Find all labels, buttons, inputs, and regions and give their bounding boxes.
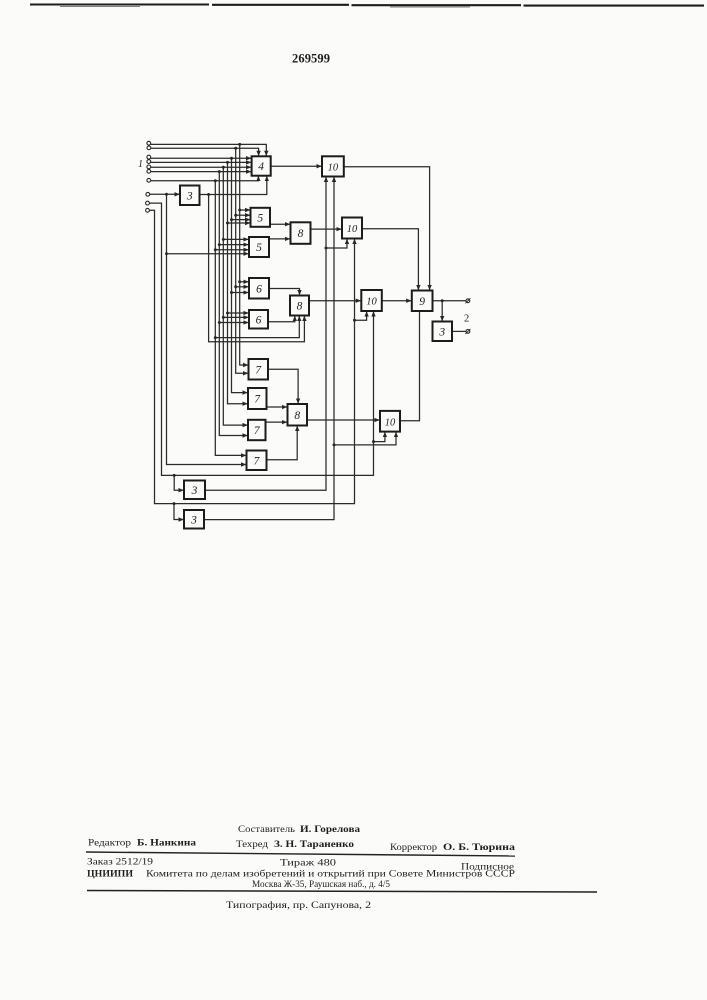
- svg-text:И. Горелова: И. Горелова: [300, 824, 360, 835]
- svg-text:5: 5: [257, 212, 263, 224]
- svg-text:3: 3: [191, 485, 198, 497]
- svg-text:ЦНИИПИ: ЦНИИПИ: [87, 869, 134, 880]
- svg-text:Москва Ж-35, Раушская наб., д.: Москва Ж-35, Раушская наб., д. 4/5: [252, 879, 390, 890]
- svg-text:3: 3: [190, 514, 197, 526]
- svg-text:О. Б. Тюрина: О. Б. Тюрина: [443, 842, 515, 853]
- svg-text:2: 2: [464, 314, 469, 325]
- svg-text:Корректор: Корректор: [390, 842, 437, 853]
- svg-text:6: 6: [256, 314, 262, 326]
- svg-text:8: 8: [294, 410, 300, 422]
- svg-text:Заказ 2512/19: Заказ 2512/19: [87, 857, 153, 868]
- svg-text:10: 10: [366, 297, 377, 308]
- svg-text:10: 10: [347, 224, 358, 235]
- svg-text:Б. Нанкина: Б. Нанкина: [137, 838, 196, 849]
- svg-text:3: 3: [186, 190, 193, 202]
- svg-text:Редактор: Редактор: [88, 838, 131, 849]
- svg-text:4: 4: [258, 161, 264, 173]
- svg-text:5: 5: [256, 242, 262, 254]
- svg-text:9: 9: [419, 296, 425, 308]
- svg-text:Комитета по делам изобретений: Комитета по делам изобретений и открытий…: [146, 869, 515, 880]
- svg-text:Тираж 480: Тираж 480: [280, 858, 336, 869]
- svg-text:8: 8: [298, 228, 304, 240]
- svg-text:1: 1: [138, 159, 143, 170]
- svg-text:З. Н. Тараненко: З. Н. Тараненко: [274, 839, 354, 850]
- svg-text:3: 3: [438, 326, 445, 338]
- svg-text:8: 8: [297, 301, 303, 313]
- svg-text:10: 10: [328, 162, 339, 173]
- svg-text:Техред: Техред: [236, 839, 268, 850]
- svg-text:269599: 269599: [292, 52, 330, 66]
- svg-text:Составитель: Составитель: [238, 824, 296, 835]
- svg-text:6: 6: [256, 283, 262, 295]
- svg-text:Типография, пр. Сапунова, 2: Типография, пр. Сапунова, 2: [226, 900, 371, 911]
- svg-text:10: 10: [385, 417, 396, 428]
